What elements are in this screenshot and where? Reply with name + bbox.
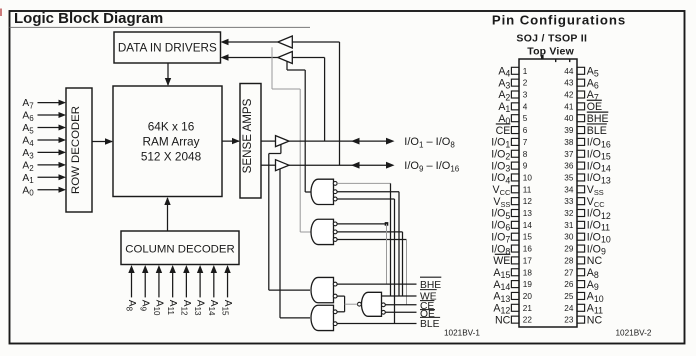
svg-text:1021BV-1: 1021BV-1 — [444, 328, 480, 337]
pin 21 stub left — [511, 304, 519, 311]
control signal label OE (active low) — [420, 309, 435, 320]
svg-text:38: 38 — [564, 138, 574, 147]
package top edge tick marks — [555, 60, 556, 63]
control signal label CE (active low) — [420, 301, 434, 312]
svg-text:10: 10 — [523, 173, 533, 182]
pin 43 stub right — [577, 79, 585, 86]
wire: sense amps to output buffer 2 — [261, 164, 276, 166]
pin 18 label A15 — [493, 267, 510, 280]
svg-text:6: 6 — [523, 126, 528, 135]
pin 33 stub right — [577, 198, 585, 205]
pin 39 stub right — [577, 127, 585, 134]
pin 27 stub right — [577, 269, 585, 276]
svg-text:1021BV-2: 1021BV-2 — [616, 328, 652, 337]
wire: WE control line — [382, 295, 417, 297]
gate G5 (output enable NAND) — [358, 292, 386, 316]
svg-text:2: 2 — [523, 79, 528, 88]
row decoder box — [66, 88, 92, 212]
svg-text:35: 35 — [564, 173, 574, 182]
pin 9 stub left — [511, 162, 519, 169]
pin 41 label OE — [587, 100, 602, 113]
pin 14 label I/O6 — [491, 220, 510, 233]
package body outline — [519, 59, 577, 327]
pin 29 label I/O9 — [587, 243, 606, 256]
svg-text:40: 40 — [564, 114, 574, 123]
column decoder box — [121, 231, 239, 265]
svg-text:4: 4 — [523, 102, 528, 111]
pin 42 label A7 — [587, 89, 599, 102]
address input A7 — [22, 98, 66, 110]
wire: G1 input 3 — [337, 198, 394, 200]
svg-text:SOJ / TSOP II: SOJ / TSOP II — [516, 33, 587, 45]
pin 19 stub left — [511, 281, 519, 288]
wire: vertical WE to G1 input1 — [390, 183, 392, 296]
column address input A13 — [193, 265, 205, 316]
pin 21 label A12 — [493, 303, 510, 316]
pin 38 label I/O16 — [587, 137, 611, 150]
pin 14 stub left — [511, 221, 519, 228]
wire: BHE control line — [337, 283, 416, 285]
column address input A14 — [207, 265, 219, 316]
pin 43 label A6 — [587, 77, 599, 90]
svg-text:31: 31 — [564, 221, 574, 230]
column address input A12 — [179, 265, 191, 316]
pin 6 label CE — [496, 124, 511, 137]
column address input A9 — [138, 265, 150, 312]
wire: G3 lower input to bar — [337, 295, 344, 297]
pin 31 label I/O11 — [587, 220, 610, 233]
svg-text:44: 44 — [564, 67, 574, 76]
pin 5 stub left — [511, 115, 519, 122]
pin 4 stub left — [511, 103, 519, 110]
svg-text:32: 32 — [564, 209, 574, 218]
svg-text:30: 30 — [564, 233, 574, 242]
pin 12 stub left — [511, 198, 519, 205]
wire: vertical WE2 to G1 input2 — [398, 192, 400, 296]
pin 22 label NC — [495, 314, 511, 326]
pin 4 label A1 — [498, 101, 510, 114]
pin 18 stub left — [511, 269, 519, 276]
data in drivers box U-DID — [114, 32, 221, 63]
svg-text:33: 33 — [564, 197, 574, 206]
pin 41 stub right — [577, 103, 585, 110]
svg-text:BLE: BLE — [420, 319, 440, 330]
pin 28 label NC — [587, 255, 603, 267]
pin 10 label I/O4 — [491, 172, 510, 185]
pin 23 stub right — [577, 316, 585, 323]
svg-text:20: 20 — [523, 292, 533, 301]
svg-text:36: 36 — [564, 162, 574, 171]
pin 32 stub right — [577, 210, 585, 217]
svg-text:23: 23 — [564, 316, 574, 325]
svg-text:8: 8 — [523, 150, 528, 159]
wire: G1 input 2 — [337, 191, 399, 193]
wire: row decoder to RAM array arrow — [92, 138, 113, 144]
svg-text:NC: NC — [587, 255, 603, 267]
pin 34 label VSS — [587, 184, 604, 197]
svg-text:22: 22 — [523, 316, 533, 325]
pin 35 label I/O13 — [587, 172, 611, 185]
svg-text:9: 9 — [523, 162, 528, 171]
wire (gray): G1 input 1 — [337, 182, 390, 184]
pin 3 label A2 — [498, 89, 510, 102]
pin 23 label NC — [587, 314, 603, 326]
pin 31 stub right — [577, 221, 585, 228]
wire: upper input buffer to data in drivers arrow — [221, 39, 278, 45]
wire: sense amps to output buffer 1 — [261, 140, 276, 142]
svg-text:13: 13 — [523, 209, 533, 218]
svg-text:5: 5 — [523, 114, 528, 123]
control signal label WE (active low) — [420, 290, 437, 303]
wire: G2 input 3 — [337, 239, 406, 241]
address input A4 — [22, 136, 66, 148]
pin 15 stub left — [511, 233, 519, 240]
pin 44 stub right — [577, 67, 585, 74]
pin 1 label A4 — [498, 66, 510, 79]
svg-text:39: 39 — [564, 126, 574, 135]
svg-text:43: 43 — [564, 79, 574, 88]
pin 15 label I/O7 — [491, 231, 510, 244]
svg-text:NC: NC — [587, 314, 603, 326]
gate G4 (read enable lower byte) — [311, 305, 337, 330]
RAM array box 64K x 16 — [113, 86, 222, 197]
svg-text:Top View: Top View — [527, 45, 574, 57]
output buffer 1 (I/O1-8) — [276, 136, 290, 147]
svg-text:26: 26 — [564, 280, 574, 289]
pin 26 label A9 — [587, 279, 599, 292]
svg-text:41: 41 — [564, 102, 574, 111]
pin 12 label VSS — [493, 196, 510, 209]
svg-text:21: 21 — [523, 304, 533, 313]
wire: data in drivers to RAM array with down arrow — [165, 63, 171, 86]
svg-text:ROW DECODER: ROW DECODER — [70, 106, 82, 194]
svg-text:15: 15 — [523, 233, 533, 242]
svg-text:OE: OE — [587, 101, 602, 113]
pin 27 label A8 — [587, 267, 599, 280]
control signal label BHE (active low) — [420, 277, 441, 291]
pin 42 stub right — [577, 91, 585, 98]
pin 24 label A11 — [587, 303, 603, 316]
pin 13 stub left — [511, 210, 519, 217]
svg-text:RAM Array: RAM Array — [142, 135, 199, 149]
svg-text:7: 7 — [523, 138, 528, 147]
svg-text:Logic Block Diagram: Logic Block Diagram — [14, 10, 163, 27]
svg-text:I/O1 – I/O8: I/O1 – I/O8 — [404, 136, 455, 149]
control signal label BLE (active low) — [420, 317, 440, 330]
svg-text:COLUMN DECODER: COLUMN DECODER — [125, 244, 235, 256]
wire: BLE control line — [337, 323, 416, 325]
svg-text:NC: NC — [495, 314, 511, 326]
pin 2 label A3 — [498, 77, 510, 90]
svg-text:DATA IN DRIVERS: DATA IN DRIVERS — [118, 41, 217, 54]
pin 25 stub right — [577, 292, 585, 299]
input buffer lower (to data in drivers) — [278, 52, 293, 64]
wire: G2 input 2 — [337, 231, 402, 233]
pin 17 stub left — [511, 257, 519, 264]
pin 44 label A5 — [587, 66, 599, 79]
gate G1 (write enable upper byte) — [311, 179, 337, 204]
pin 5 label A0 — [498, 113, 510, 126]
pin 10 stub left — [511, 174, 519, 181]
column address input A10 — [152, 265, 164, 316]
pin 24 stub right — [577, 304, 585, 311]
pin 16 stub left — [511, 245, 519, 252]
wire: column decoder to RAM array up arrow — [164, 197, 170, 231]
wire: G4 upper input to bar — [337, 311, 344, 313]
svg-text:37: 37 — [564, 150, 574, 159]
pin 37 label I/O15 — [587, 148, 611, 161]
svg-text:BLE: BLE — [587, 125, 607, 137]
pin 1 stub left — [511, 67, 519, 74]
pin 11 label VCC — [493, 184, 511, 197]
gate G3 (read enable upper byte) — [311, 277, 337, 302]
wire: upper input buffer input from I/O9-16 line — [292, 42, 339, 165]
pin 13 label I/O5 — [491, 208, 510, 221]
svg-text:SENSE AMPS: SENSE AMPS — [241, 98, 254, 173]
pin 2 stub left — [511, 79, 519, 86]
svg-text:29: 29 — [564, 245, 574, 254]
svg-text:11: 11 — [523, 185, 532, 194]
svg-text:17: 17 — [523, 256, 533, 265]
pin 3 stub left — [511, 91, 519, 98]
wire: vertical WE3 to G2 input2 — [402, 232, 404, 296]
pin 30 label I/O10 — [587, 231, 611, 244]
wire: G5 output to G3/G4 common bar — [345, 296, 358, 312]
input buffer upper (to data in drivers) — [278, 36, 293, 48]
svg-text:64K x 16: 64K x 16 — [148, 120, 195, 134]
pin 16 label I/O8 — [491, 243, 510, 256]
pin 7 stub left — [511, 138, 519, 145]
pin 40 label BHE — [587, 112, 609, 125]
pin 39 label BLE — [587, 124, 607, 137]
pin 25 label A10 — [587, 291, 604, 304]
svg-text:34: 34 — [564, 185, 574, 194]
pin 26 stub right — [577, 281, 585, 288]
pin 32 label I/O12 — [587, 208, 611, 221]
pin 6 stub left — [511, 127, 519, 134]
wire (gray): gate G2 output to upper input buffer enable — [272, 47, 312, 232]
svg-text:27: 27 — [564, 268, 574, 277]
pin 8 stub left — [511, 150, 519, 157]
pin 8 label I/O2 — [491, 148, 510, 161]
red registration tick left — [0, 9, 2, 17]
svg-text:BHE: BHE — [587, 113, 609, 125]
address input A3 — [22, 148, 66, 160]
address input A1 — [22, 173, 66, 185]
svg-text:28: 28 — [564, 256, 574, 265]
pin 38 stub right — [577, 138, 585, 145]
pin 28 stub right — [577, 257, 585, 264]
svg-text:42: 42 — [564, 91, 574, 100]
column address input A11 — [166, 265, 178, 315]
wire (gray): vertical BHE to G2 input1 — [386, 224, 388, 284]
address input A6 — [22, 111, 66, 123]
svg-text:25: 25 — [564, 292, 574, 301]
wire: gate G4 output to output buffer 2 enable — [280, 169, 310, 318]
pin 7 label I/O1 — [491, 137, 510, 150]
svg-text:14: 14 — [523, 221, 533, 230]
svg-text:24: 24 — [564, 304, 574, 313]
column address input A15 — [221, 265, 233, 316]
gate G2 (write enable lower byte) — [311, 219, 337, 244]
pin 33 label VCC — [587, 196, 605, 209]
wire: RAM array to sense amps arrow — [222, 138, 240, 144]
pin 11 stub left — [511, 186, 519, 193]
pin 37 stub right — [577, 150, 585, 157]
pin 35 stub right — [577, 174, 585, 181]
pin 17 label WE — [493, 254, 510, 267]
wire: CE control line — [385, 304, 416, 306]
pin 20 label A13 — [493, 291, 510, 304]
pin 9 label I/O3 — [491, 160, 510, 173]
pin 36 label I/O14 — [587, 160, 611, 173]
wire: lower input buffer to data in drivers arrow — [221, 54, 278, 60]
address input A0 — [22, 185, 66, 197]
svg-text:19: 19 — [523, 280, 533, 289]
pin 30 stub right — [577, 233, 585, 240]
svg-text:CE: CE — [496, 125, 511, 137]
svg-text:3: 3 — [523, 91, 528, 100]
svg-text:12: 12 — [523, 197, 533, 206]
wire: vertical BLE to G1 input3 — [394, 199, 396, 324]
pin 40 stub right — [577, 115, 585, 122]
wire: I/O1-I/O8 bidirectional line — [289, 138, 395, 145]
wire: OE control line — [385, 311, 416, 313]
pin 20 stub left — [511, 292, 519, 299]
pin 29 stub right — [577, 245, 585, 252]
pin 36 stub right — [577, 162, 585, 169]
address input A5 — [22, 123, 66, 135]
wire: lower input buffer input from I/O1-8 line — [292, 58, 324, 142]
title underline rule — [10, 26, 311, 28]
svg-text:512 X 2048: 512 X 2048 — [141, 150, 202, 164]
svg-text:Pin Configurations: Pin Configurations — [492, 12, 626, 27]
wire: I/O9-I/O16 bidirectional line — [289, 162, 395, 169]
wire (gray): vertical CE to G2 input3 — [406, 240, 408, 305]
output buffer 2 (I/O9-16) — [276, 160, 290, 171]
svg-text:16: 16 — [523, 245, 533, 254]
sense amps box — [240, 84, 261, 199]
pin 22 stub left — [511, 316, 519, 323]
address input A2 — [22, 160, 66, 172]
column address input A8 — [125, 265, 137, 312]
pin 19 label A14 — [493, 279, 510, 292]
pin 1 notch mark — [541, 55, 544, 59]
wire: gate G1 output to lower input buffer enable — [287, 61, 312, 192]
svg-text:WE: WE — [493, 255, 510, 267]
wire: G2 input 1 with junction dot — [337, 222, 388, 226]
wire: gate G3 output to output buffer 1 enable — [269, 145, 310, 291]
svg-text:1: 1 — [523, 67, 528, 76]
pin 34 stub right — [577, 186, 585, 193]
svg-text:18: 18 — [523, 268, 533, 277]
